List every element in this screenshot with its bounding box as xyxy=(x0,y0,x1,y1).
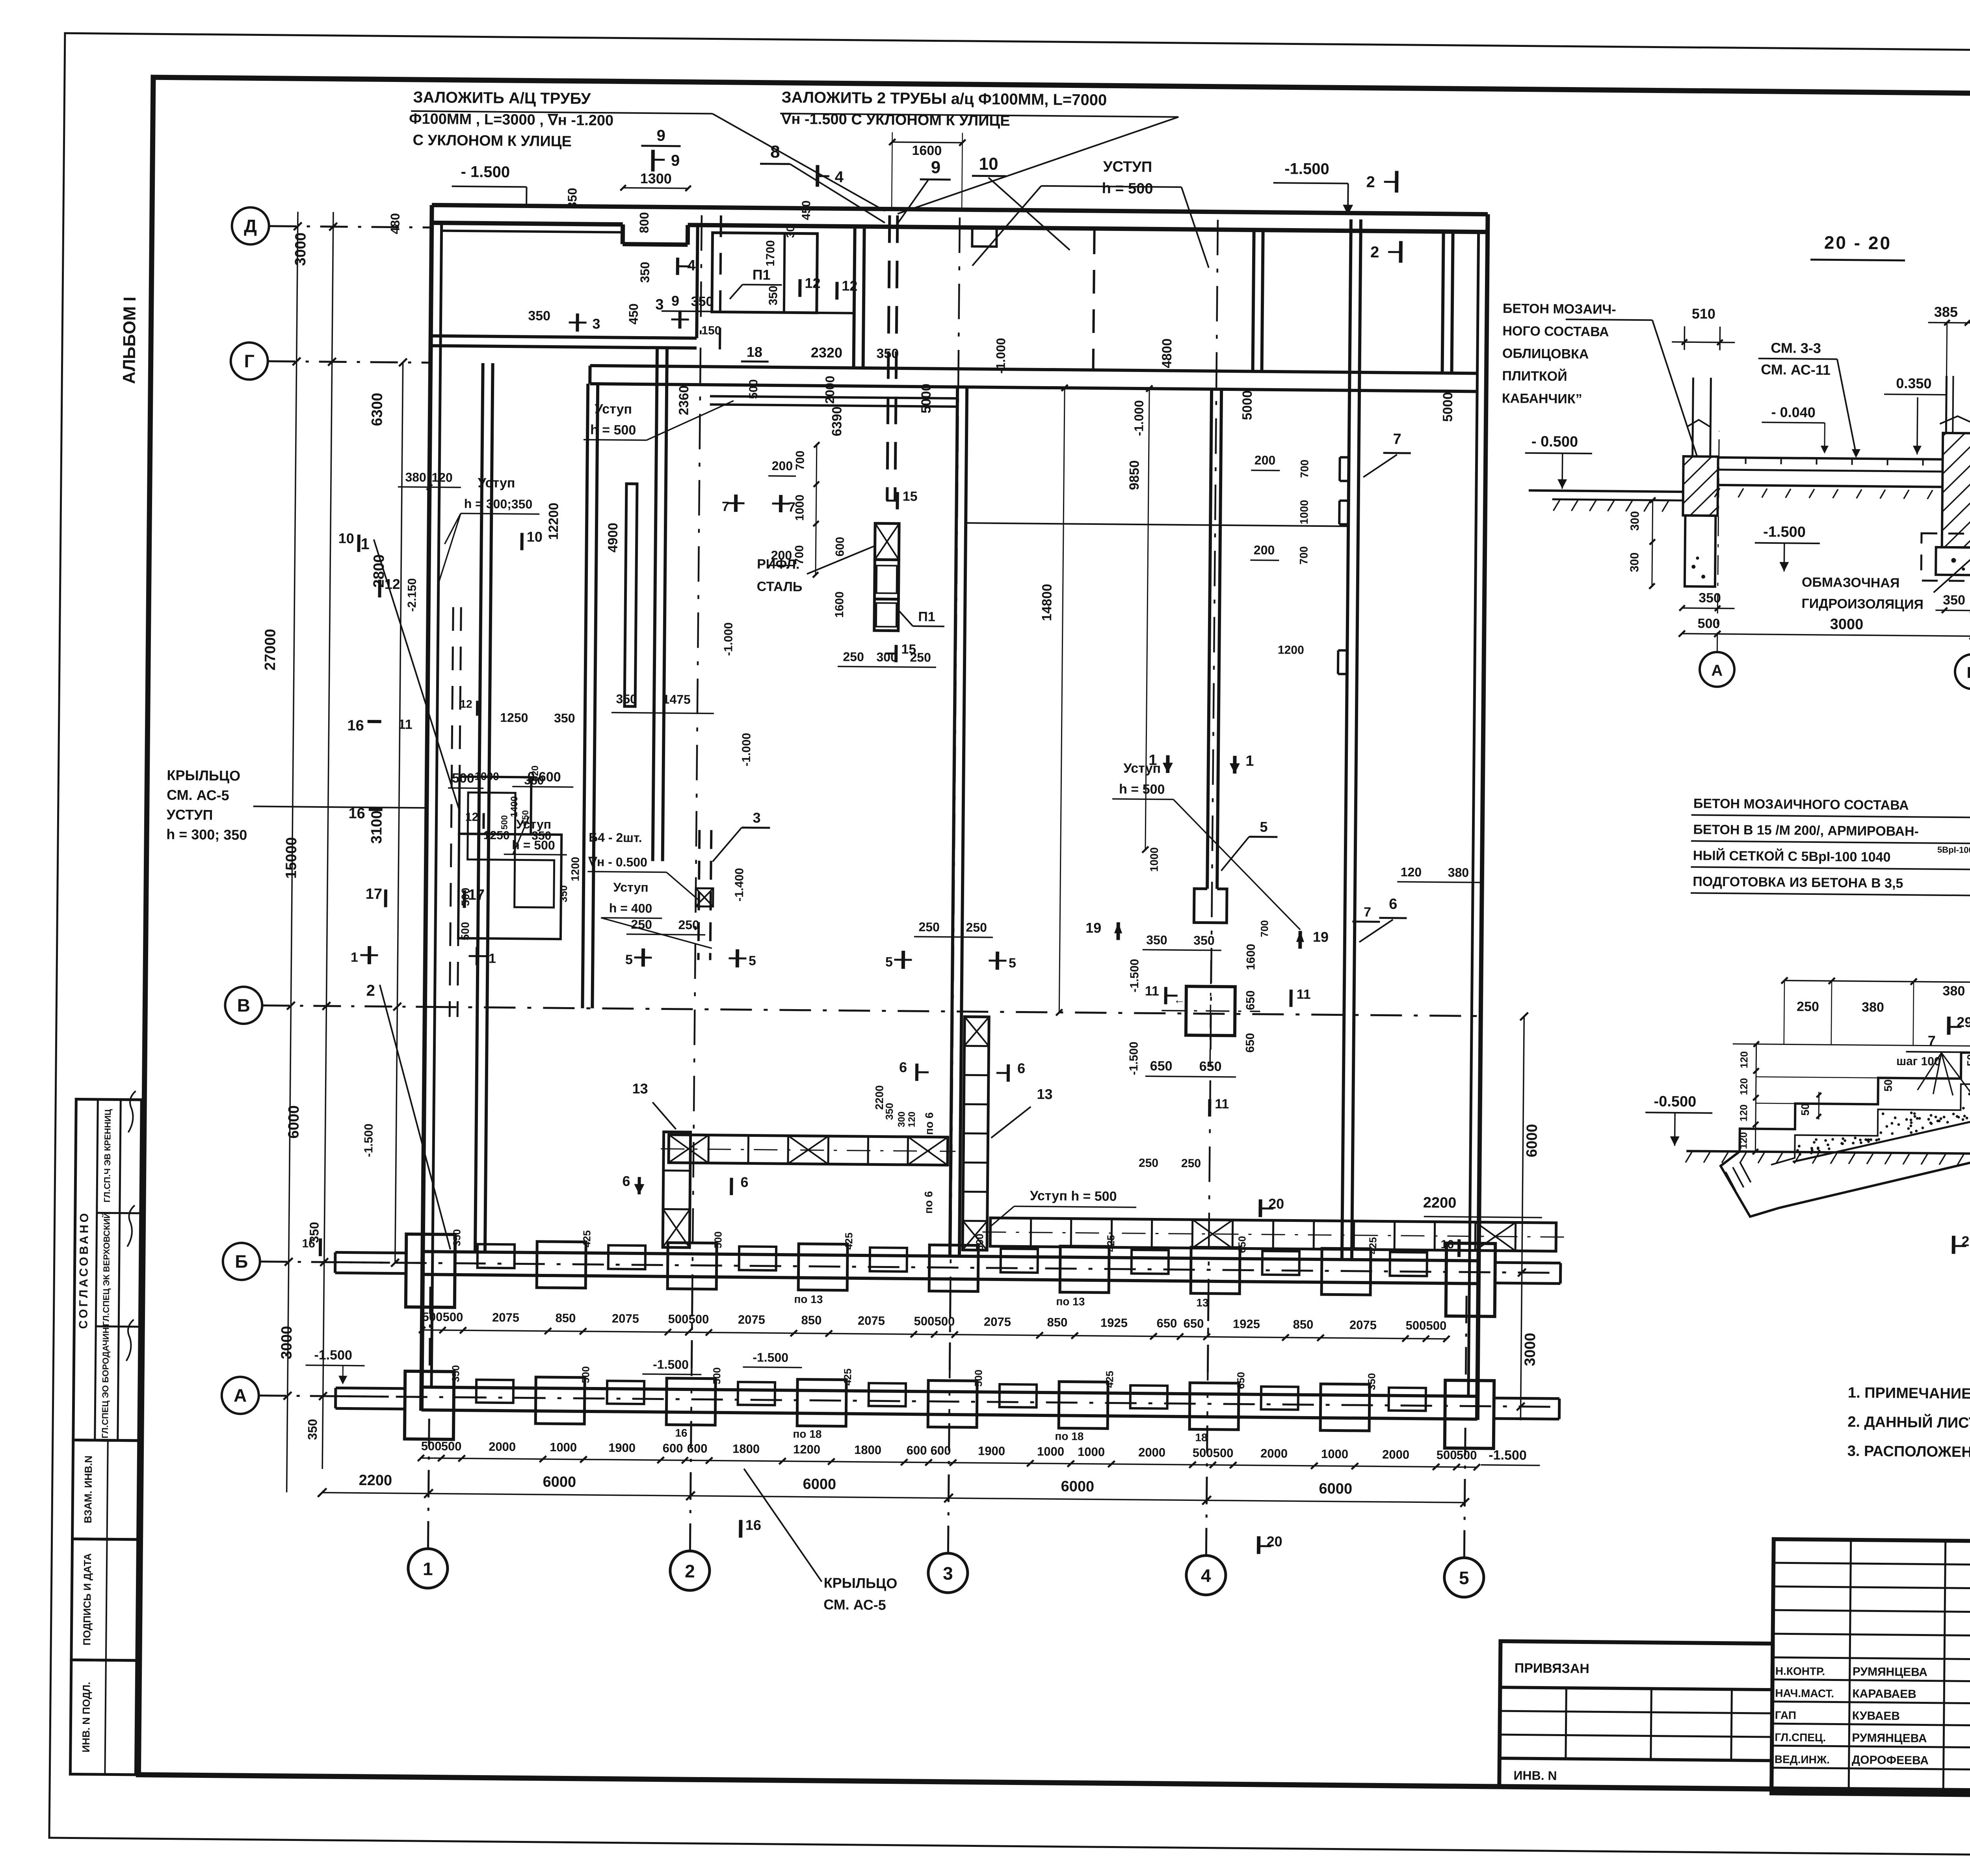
svg-text:500: 500 xyxy=(1437,1448,1457,1462)
16-16 steps structure xyxy=(1686,1151,1970,1155)
svg-text:500: 500 xyxy=(934,1315,955,1328)
svg-text:500: 500 xyxy=(499,815,509,830)
svg-text:4800: 4800 xyxy=(1160,338,1175,368)
svg-text:С УКЛОНОМ К УЛИЦЕ: С УКЛОНОМ К УЛИЦЕ xyxy=(413,132,572,150)
svg-text:по 13: по 13 xyxy=(1056,1295,1085,1308)
svg-text:РУМЯНЦЕВА: РУМЯНЦЕВА xyxy=(1852,1731,1927,1745)
svg-text:6300: 6300 xyxy=(369,393,386,426)
svg-text:350: 350 xyxy=(1193,933,1215,947)
svg-text:h = 500: h = 500 xyxy=(590,422,636,438)
svg-text:4: 4 xyxy=(834,168,844,186)
svg-text:ОБЛИЦОВКА: ОБЛИЦОВКА xyxy=(1502,346,1589,362)
svg-text:2200: 2200 xyxy=(1423,1194,1457,1211)
left vertical dims 120s xyxy=(1755,1044,1756,1152)
svg-text:2000: 2000 xyxy=(489,1440,516,1454)
svg-text:1000: 1000 xyxy=(550,1440,577,1454)
svg-text:350: 350 xyxy=(451,1229,463,1246)
svg-text:2: 2 xyxy=(366,982,375,999)
svg-text:5: 5 xyxy=(1009,956,1016,971)
svg-text:350: 350 xyxy=(450,1365,461,1382)
svg-text:НЫЙ СЕТКОЙ С 5ВрI-100 1040: НЫЙ СЕТКОЙ С 5ВрI-100 1040 xyxy=(1693,848,1891,865)
svg-text:0.350: 0.350 xyxy=(1896,375,1931,392)
flags 3 in room xyxy=(569,322,587,324)
svg-text:3000: 3000 xyxy=(279,1326,295,1359)
svg-text:500: 500 xyxy=(1405,1318,1426,1332)
svg-text:ИНВ. N: ИНВ. N xyxy=(1513,1768,1557,1783)
svg-text:500: 500 xyxy=(441,1439,462,1453)
svg-text:650: 650 xyxy=(1199,1059,1222,1074)
svg-text:500: 500 xyxy=(580,1366,591,1383)
svg-text:В: В xyxy=(237,995,251,1015)
svg-text:1000: 1000 xyxy=(1148,847,1160,872)
svg-text:-1.500: -1.500 xyxy=(1127,1041,1141,1075)
svg-text:12: 12 xyxy=(842,277,857,294)
svg-text:АЛЬБОМ I: АЛЬБОМ I xyxy=(119,297,139,384)
Б right stub xyxy=(1494,1262,1561,1263)
svg-text:по 6: по 6 xyxy=(922,1191,935,1214)
svg-text:А: А xyxy=(234,1385,247,1406)
svg-text:500: 500 xyxy=(1697,616,1720,631)
svg-text:5000: 5000 xyxy=(1440,392,1455,422)
svg-text:П1: П1 xyxy=(753,266,771,283)
svg-text:300: 300 xyxy=(1628,552,1641,572)
svg-text:1600: 1600 xyxy=(912,143,942,158)
svg-text:250: 250 xyxy=(1139,1156,1158,1169)
room inner line xyxy=(442,231,621,232)
flags 1 bottom left xyxy=(361,954,378,956)
axis 2,3,4 centerlines xyxy=(691,215,702,1413)
channel V4 with steps xyxy=(653,348,657,861)
svg-text:500: 500 xyxy=(1193,1446,1213,1460)
svg-text:6000: 6000 xyxy=(803,1476,836,1493)
svg-text:1: 1 xyxy=(489,951,496,966)
svg-text:-1.500: -1.500 xyxy=(1763,524,1806,541)
А left stub xyxy=(336,1388,406,1389)
svg-text:5: 5 xyxy=(749,953,756,968)
bottom axis dim row xyxy=(322,1493,1465,1502)
svg-text:2200: 2200 xyxy=(359,1472,392,1489)
svg-text:250: 250 xyxy=(966,920,987,934)
svg-text:1: 1 xyxy=(423,1558,433,1579)
svg-text:850: 850 xyxy=(801,1313,821,1327)
svg-text:650: 650 xyxy=(1156,1316,1177,1330)
svg-text:7: 7 xyxy=(788,500,795,515)
svg-text:500: 500 xyxy=(459,888,472,906)
svg-text:120: 120 xyxy=(1738,1078,1750,1095)
svg-text:350: 350 xyxy=(565,188,579,209)
svg-text:850: 850 xyxy=(1047,1315,1067,1329)
buried pipe dashed channel xyxy=(887,215,890,500)
svg-text:5: 5 xyxy=(1459,1567,1469,1588)
svg-text:500: 500 xyxy=(711,1367,723,1385)
svg-text:3. РАСПОЛОЖЕНИЕ КРЫЛЕЦ СМ.: 3. РАСПОЛОЖЕНИЕ КРЫЛЕЦ СМ. АС-5. xyxy=(1847,1443,1970,1462)
wall on axis А (bottom outer) xyxy=(422,1387,1477,1396)
svg-text:380: 380 xyxy=(1862,1000,1884,1015)
svg-text:СТАЛЬ: СТАЛЬ xyxy=(757,579,803,595)
svg-text:h = 400: h = 400 xyxy=(609,901,652,915)
svg-text:1: 1 xyxy=(1245,753,1254,769)
svg-text:450: 450 xyxy=(626,303,641,325)
svg-text:ГЛ.СПЕЦ ЭК ВЕРХОВСКИЙ: ГЛ.СПЕЦ ЭК ВЕРХОВСКИЙ xyxy=(101,1212,112,1326)
svg-text:←: ← xyxy=(1173,993,1185,1006)
svg-text:1200: 1200 xyxy=(793,1442,820,1456)
svg-text:СМ. АС-5: СМ. АС-5 xyxy=(823,1596,886,1613)
svg-text:300: 300 xyxy=(1628,511,1641,531)
svg-text:6: 6 xyxy=(622,1173,630,1189)
svg-text:ГИДРОИЗОЛЯЦИЯ: ГИДРОИЗОЛЯЦИЯ xyxy=(1801,596,1924,612)
svg-text:11: 11 xyxy=(398,717,412,732)
svg-text:ПРИВЯЗАН: ПРИВЯЗАН xyxy=(1515,1660,1589,1676)
svg-text:12: 12 xyxy=(460,698,472,710)
svg-text:-0.600: -0.600 xyxy=(523,769,561,785)
svg-text:500: 500 xyxy=(712,1231,724,1249)
svg-text:2075: 2075 xyxy=(612,1311,639,1326)
svg-text:- 0.500: - 0.500 xyxy=(1531,433,1578,450)
svg-text:14800: 14800 xyxy=(1039,584,1055,621)
svg-text:385: 385 xyxy=(1934,304,1958,320)
P1 pit rectangle xyxy=(712,233,818,313)
element 13 horizontal channel xyxy=(669,1135,948,1165)
svg-text:1000: 1000 xyxy=(1321,1447,1348,1461)
V7 end footing xyxy=(1194,889,1227,923)
svg-text:120: 120 xyxy=(431,470,453,484)
svg-text:200: 200 xyxy=(1254,453,1276,467)
svg-text:2000: 2000 xyxy=(1138,1445,1165,1460)
svg-text:ДОРОФЕЕВА: ДОРОФЕЕВА xyxy=(1852,1753,1929,1767)
svg-text:-1.500: -1.500 xyxy=(1284,160,1329,178)
svg-text:2360: 2360 xyxy=(676,385,692,415)
svg-text:по 18: по 18 xyxy=(1055,1430,1083,1443)
svg-text:2075: 2075 xyxy=(738,1313,765,1327)
svg-text:9: 9 xyxy=(671,152,680,169)
svg-text:Г: Г xyxy=(244,351,255,371)
svg-text:12200: 12200 xyxy=(546,503,561,540)
flags 7 xyxy=(727,502,745,504)
svg-text:350: 350 xyxy=(305,1419,320,1440)
svg-text:1800: 1800 xyxy=(854,1443,881,1457)
interior wall on axis Г xyxy=(590,366,1477,374)
svg-text:510: 510 xyxy=(1692,305,1715,322)
svg-text:- 1.500: - 1.500 xyxy=(461,163,510,181)
svg-text:4900: 4900 xyxy=(605,522,621,552)
svg-text:16: 16 xyxy=(675,1427,687,1439)
pilasters on А xyxy=(405,1371,454,1439)
svg-text:6000: 6000 xyxy=(1061,1478,1094,1495)
svg-text:500: 500 xyxy=(974,1234,985,1251)
svg-text:3: 3 xyxy=(753,809,760,826)
element 13 vertical column xyxy=(963,1017,989,1250)
svg-text:50: 50 xyxy=(1882,1079,1894,1091)
svg-text:7: 7 xyxy=(722,499,729,514)
svg-text:УСТУП: УСТУП xyxy=(1103,158,1152,175)
svg-text:350: 350 xyxy=(554,711,575,725)
svg-text:13: 13 xyxy=(1196,1296,1208,1309)
axis circles 20-20 xyxy=(1700,652,1735,687)
flags 5 bottom of verticals xyxy=(634,956,652,958)
svg-text:250: 250 xyxy=(1181,1157,1201,1170)
channel V2 xyxy=(582,384,588,1008)
svg-text:16: 16 xyxy=(745,1517,761,1533)
small blocks on Б xyxy=(478,1244,515,1268)
svg-text:10: 10 xyxy=(979,154,998,173)
svg-text:20 - 20: 20 - 20 xyxy=(1824,232,1892,253)
svg-text:350: 350 xyxy=(532,829,551,842)
svg-text:-1.500: -1.500 xyxy=(653,1357,689,1372)
svg-text:650: 650 xyxy=(1150,1058,1173,1073)
svg-text:500: 500 xyxy=(1457,1448,1477,1462)
svg-text:350: 350 xyxy=(1146,933,1167,947)
svg-text:4: 4 xyxy=(1201,1565,1211,1586)
pilasters on Б xyxy=(406,1234,455,1307)
svg-text:12: 12 xyxy=(465,811,479,824)
svg-text:250: 250 xyxy=(678,918,699,932)
svg-text:6: 6 xyxy=(740,1174,748,1190)
svg-text:15000: 15000 xyxy=(283,837,300,879)
svg-text:ПОДПИСЬ И ДАТА: ПОДПИСЬ И ДАТА xyxy=(81,1553,93,1645)
svg-text:1250: 1250 xyxy=(500,710,528,725)
svg-text:27000: 27000 xyxy=(262,629,279,671)
dim verticals 14800 9850 xyxy=(1059,388,1065,1012)
svg-text:6: 6 xyxy=(1389,896,1398,913)
svg-text:РИФЛ.: РИФЛ. xyxy=(757,557,799,572)
channel V6 on axis 3 xyxy=(950,387,957,1256)
svg-text:600: 600 xyxy=(907,1443,927,1457)
step rects cluster near axis1 xyxy=(459,777,531,835)
svg-text:Уступ: Уступ xyxy=(478,475,515,491)
flags 1 mid xyxy=(1166,755,1169,773)
channel row to axis 5 xyxy=(990,1218,1556,1251)
bottom dim chain row 1 xyxy=(421,1458,1477,1467)
small niche marks on V8 xyxy=(1340,456,1349,458)
svg-text:ГЛ.СПЕЦ.: ГЛ.СПЕЦ. xyxy=(1775,1731,1826,1744)
svg-text:380: 380 xyxy=(1448,865,1469,879)
svg-text:350: 350 xyxy=(637,262,652,283)
svg-text:УСТУП: УСТУП xyxy=(166,807,213,823)
element 13 left column xyxy=(663,1132,691,1248)
svg-text:850: 850 xyxy=(555,1311,576,1325)
svg-text:9850: 9850 xyxy=(1127,460,1142,490)
svg-text:Б: Б xyxy=(235,1251,248,1272)
svg-text:ПЛИТКОЙ: ПЛИТКОЙ xyxy=(1502,368,1567,384)
svg-text:5: 5 xyxy=(1260,819,1267,835)
svg-text:1600: 1600 xyxy=(833,591,846,618)
svg-text:425: 425 xyxy=(1367,1237,1379,1254)
svg-text:2: 2 xyxy=(1366,173,1375,191)
building top outer wall xyxy=(432,205,1488,214)
flag 2 right xyxy=(1395,171,1398,193)
building left outer wall xyxy=(421,205,432,1411)
svg-text:Уступ: Уступ xyxy=(613,880,649,894)
svg-text:650: 650 xyxy=(1183,1316,1204,1330)
svg-text:250: 250 xyxy=(918,920,940,934)
svg-text:700: 700 xyxy=(1258,920,1270,937)
svg-text:350: 350 xyxy=(528,308,550,323)
svg-text:БЕТОН МОЗАИЧ-: БЕТОН МОЗАИЧ- xyxy=(1503,301,1616,317)
title block privyazan section xyxy=(1499,1641,1773,1789)
svg-text:200: 200 xyxy=(772,459,793,473)
svg-text:5: 5 xyxy=(885,954,893,969)
svg-text:П1: П1 xyxy=(918,609,935,624)
svg-text:350: 350 xyxy=(691,294,714,309)
svg-text:3000: 3000 xyxy=(1830,616,1864,633)
svg-text:-1.400: -1.400 xyxy=(733,868,746,902)
svg-text:1: 1 xyxy=(361,535,370,553)
svg-text:2000: 2000 xyxy=(1382,1448,1409,1462)
svg-text:7: 7 xyxy=(1364,905,1371,920)
svg-text:12: 12 xyxy=(805,275,820,291)
svg-text:500: 500 xyxy=(972,1370,984,1387)
svg-text:1700: 1700 xyxy=(764,240,777,266)
svg-text:СМ. АС-11: СМ. АС-11 xyxy=(1761,361,1831,378)
svg-text:-1.500: -1.500 xyxy=(1128,959,1141,992)
svg-text:1800: 1800 xyxy=(732,1442,760,1456)
svg-text:- 0.040: - 0.040 xyxy=(1771,404,1815,420)
svg-text:-1.000: -1.000 xyxy=(1132,400,1146,436)
small blocks on А xyxy=(476,1380,514,1403)
svg-text:Уступ h = 500: Уступ h = 500 xyxy=(1030,1188,1117,1204)
svg-text:1200: 1200 xyxy=(569,857,582,881)
svg-text:Н.КОНТР.: Н.КОНТР. xyxy=(1775,1665,1825,1677)
svg-text:БЕТОН МОЗАИЧНОГО СОСТАВА: БЕТОН МОЗАИЧНОГО СОСТАВА xyxy=(1693,796,1909,813)
svg-text:200: 200 xyxy=(1254,543,1275,557)
svg-text:18: 18 xyxy=(747,344,762,360)
svg-text:425: 425 xyxy=(581,1230,593,1248)
svg-text:h = 300;350: h = 300;350 xyxy=(464,496,533,511)
channel V7 on axis 4 (ends at footing) xyxy=(1207,389,1212,889)
svg-text:500: 500 xyxy=(914,1314,934,1328)
svg-text:1900: 1900 xyxy=(608,1441,636,1455)
svg-text:по 18: по 18 xyxy=(793,1428,821,1440)
svg-text:2075: 2075 xyxy=(492,1311,519,1325)
svg-text:2. ДАННЫЙ ЛИСТ ЧИТАТЬ С ЛИС: 2. ДАННЫЙ ЛИСТ ЧИТАТЬ С ЛИСТАМИ АС-11,13… xyxy=(1847,1413,1970,1433)
svg-text:350: 350 xyxy=(767,286,780,305)
svg-text:16: 16 xyxy=(1440,1238,1454,1251)
svg-text:6: 6 xyxy=(1017,1060,1025,1076)
channel V1 xyxy=(475,363,483,1252)
16-16 top dim row xyxy=(1784,980,1970,984)
svg-text:-2.150: -2.150 xyxy=(405,578,419,612)
svg-text:ЗАЛОЖИТЬ А/Ц ТРУБУ: ЗАЛОЖИТЬ А/Ц ТРУБУ xyxy=(413,89,591,108)
top band room wall x3650 xyxy=(1442,232,1444,373)
svg-text:Б4 - 2шт.: Б4 - 2шт. xyxy=(589,830,642,845)
svg-text:250: 250 xyxy=(631,917,652,931)
svg-text:15: 15 xyxy=(903,489,918,504)
svg-text:120: 120 xyxy=(1737,1132,1749,1149)
vzam inv box xyxy=(72,1440,139,1539)
flag 4 top xyxy=(816,165,819,187)
svg-text:7: 7 xyxy=(1393,431,1401,448)
right vertical dim line xyxy=(1520,1017,1524,1420)
left pier xyxy=(1683,456,1718,516)
svg-text:500: 500 xyxy=(1426,1318,1446,1332)
svg-text:850: 850 xyxy=(1293,1318,1313,1331)
svg-text:Ф100ММ , L=3000 , ∇н -1.200: Ф100ММ , L=3000 , ∇н -1.200 xyxy=(409,111,613,129)
svg-text:по 13: по 13 xyxy=(794,1293,823,1305)
svg-text:по 6: по 6 xyxy=(923,1112,935,1135)
pit P1 blocks xyxy=(875,523,899,560)
left vertical dim lines xyxy=(287,212,298,1492)
secondary channel below Г xyxy=(710,396,958,398)
channel V8 stepped xyxy=(1342,219,1351,1260)
svg-text:425: 425 xyxy=(1105,1235,1117,1252)
svg-text:шаг 100: шаг 100 xyxy=(1896,1055,1941,1068)
svg-text:ВЕД.ИНЖ.: ВЕД.ИНЖ. xyxy=(1775,1753,1830,1766)
svg-text:НОГО СОСТАВА: НОГО СОСТАВА xyxy=(1502,324,1609,339)
svg-text:Д: Д xyxy=(244,216,257,236)
svg-text:-1.500: -1.500 xyxy=(362,1123,375,1157)
svg-text:1300: 1300 xyxy=(640,170,672,187)
svg-text:5000: 5000 xyxy=(1240,390,1255,420)
svg-text:120: 120 xyxy=(1401,865,1422,879)
svg-text:425: 425 xyxy=(842,1368,853,1386)
svg-text:10: 10 xyxy=(338,530,354,546)
svg-text:КАРАВАЕВ: КАРАВАЕВ xyxy=(1852,1687,1916,1701)
svg-text:СОГЛАСОВАНО: СОГЛАСОВАНО xyxy=(77,1211,91,1329)
svg-text:10: 10 xyxy=(527,528,543,545)
svg-text:h = 500: h = 500 xyxy=(1119,782,1165,797)
svg-text:650: 650 xyxy=(1243,1033,1256,1052)
ramp slot xyxy=(624,484,637,707)
svg-text:БЕТОН В 15 /М 200/, АРМИРОВАН: БЕТОН В 15 /М 200/, АРМИРОВАН- xyxy=(1693,822,1919,839)
svg-text:500: 500 xyxy=(688,1312,709,1326)
svg-text:5: 5 xyxy=(625,952,633,967)
svg-text:1200: 1200 xyxy=(1278,643,1304,657)
svg-text:6000: 6000 xyxy=(1524,1124,1541,1157)
svg-text:250: 250 xyxy=(843,649,864,664)
svg-text:1: 1 xyxy=(351,950,358,965)
svg-text:450: 450 xyxy=(800,200,813,220)
podpis i data box xyxy=(71,1539,138,1660)
building right outer wall xyxy=(1477,214,1488,1420)
svg-text:120: 120 xyxy=(1738,1051,1750,1069)
svg-text:650: 650 xyxy=(1235,1372,1247,1389)
svg-text:1925: 1925 xyxy=(1100,1316,1128,1330)
svg-text:1000: 1000 xyxy=(1298,500,1310,524)
svg-text:ИНВ. N ПОДЛ.: ИНВ. N ПОДЛ. xyxy=(80,1682,93,1753)
svg-text:6: 6 xyxy=(899,1059,907,1075)
floor slab xyxy=(1718,457,1947,459)
svg-text:13: 13 xyxy=(1037,1086,1052,1102)
svg-text:700: 700 xyxy=(1298,459,1310,478)
svg-text:150: 150 xyxy=(701,324,721,337)
svg-text:650: 650 xyxy=(1236,1236,1248,1253)
svg-text:16: 16 xyxy=(347,718,364,734)
svg-text:9: 9 xyxy=(671,293,679,309)
svg-text:3100: 3100 xyxy=(368,811,385,844)
svg-text:8: 8 xyxy=(770,142,780,162)
svg-text:650: 650 xyxy=(1244,990,1257,1010)
axis circles letters xyxy=(232,207,269,245)
svg-text:2075: 2075 xyxy=(858,1314,885,1328)
dashed pit lines xyxy=(450,607,453,1017)
soglasovano stamp block xyxy=(73,1099,142,1441)
svg-text:2000: 2000 xyxy=(823,376,837,403)
svg-text:11: 11 xyxy=(1297,987,1311,1002)
svg-text:380: 380 xyxy=(1942,984,1965,998)
svg-text:НАЧ.МАСТ.: НАЧ.МАСТ. xyxy=(1775,1687,1834,1699)
svg-text:700: 700 xyxy=(1297,546,1310,565)
svg-text:12: 12 xyxy=(385,576,400,592)
inv n podl box xyxy=(70,1660,137,1774)
Б left stub xyxy=(335,1252,407,1253)
svg-text:-1.500: -1.500 xyxy=(1489,1448,1527,1463)
top wall notch xyxy=(621,225,625,244)
svg-text:3: 3 xyxy=(592,316,600,332)
wall on axis Б xyxy=(423,1251,1479,1261)
svg-text:6000: 6000 xyxy=(285,1105,302,1139)
svg-text:9: 9 xyxy=(656,127,665,144)
svg-text:-1.000: -1.000 xyxy=(740,733,753,766)
